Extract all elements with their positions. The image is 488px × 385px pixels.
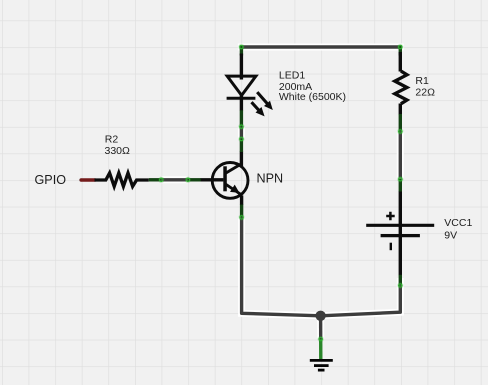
battery VCC1 (366, 212, 434, 250)
LED1 anode lead (black) (240, 54, 243, 80)
svg-text:R2: R2 (105, 134, 119, 146)
svg-text:R1: R1 (415, 75, 429, 87)
R2 pin 2 lead (green) (149, 178, 162, 181)
ground pin lead (green) (319, 339, 322, 360)
wire LED1 cathode to Q1 collector (240, 127, 243, 140)
wire R2 to Q1 base (161, 178, 188, 181)
Q1 emitter lead (black) (240, 195, 243, 205)
wire top rail: LED1 anode to R1 top (241, 45, 400, 48)
battery VCC1 minus pin lead (green) (399, 275, 402, 286)
svg-text:White (6500K): White (6500K) (279, 91, 346, 103)
transistor Q1 (NPN) (212, 163, 248, 199)
node GPIO wire end tip (79, 178, 82, 181)
LED1 cathode pin lead (green) (240, 110, 243, 126)
node Q1 emitter (239, 215, 244, 220)
wire R1 bottom to battery plus (399, 132, 402, 179)
transistor Q1 base lead (black) (201, 178, 224, 181)
node R1 top / top-right corner (398, 44, 403, 49)
resistor R2 (95, 173, 149, 186)
LED1 emission arrow lower (252, 102, 260, 110)
node VCC1 plus (398, 177, 403, 182)
node VCC1 minus (398, 283, 403, 288)
R1 pin 2 lead (green) (399, 114, 402, 131)
node Q1 base (185, 177, 190, 182)
LED LED1 (227, 76, 273, 116)
svg-text:330Ω: 330Ω (105, 145, 131, 157)
resistor R1 (395, 71, 407, 104)
wire junction to bottom-right corner up to battery minus (321, 286, 401, 316)
Q1 emitter pin lead (green) (240, 205, 243, 218)
VCC1 minus sign (rotated bar) (390, 243, 392, 251)
svg-text:GPIO: GPIO (35, 173, 67, 187)
Q1 collector pin lead (green) (240, 139, 243, 152)
node LED1 cathode (239, 124, 244, 129)
R1 pin 2 lead (black) (399, 104, 402, 115)
Q1 collector lead (black) (240, 152, 243, 167)
node R2 pin 2 (159, 177, 164, 182)
battery VCC1 plus pin lead (green) (399, 179, 402, 192)
wire Q1 emitter down to bottom-left corner then to junction (242, 217, 321, 315)
svg-text:9V: 9V (444, 229, 457, 241)
svg-text:LED1: LED1 (279, 70, 305, 82)
R1 pin 1 lead (black) (399, 52, 402, 72)
wire GPIO net (dark red) (81, 178, 94, 182)
node LED1 anode / top-left corner (239, 44, 244, 49)
LED1 anode pin lead (green) (240, 46, 243, 56)
node ground (318, 336, 323, 341)
transistor Q1 base pin lead (green) (188, 178, 201, 181)
battery VCC1 plus lead (black) (399, 192, 402, 226)
LED1 emission arrow upper (257, 92, 267, 104)
wire short segments casing (161, 127, 320, 339)
R1 pin 1 lead (green) (399, 46, 402, 56)
svg-text:NPN: NPN (257, 172, 284, 186)
junction bottom node (315, 311, 325, 321)
svg-text:22Ω: 22Ω (415, 86, 435, 98)
VCC1 plus sign (386, 212, 395, 220)
node R1 pin 2 (398, 129, 403, 134)
wire top rail casing (LED1 anode to R1 top) (241, 44, 400, 51)
battery VCC1 minus lead (black) (399, 236, 402, 276)
LED1 cathode lead (black) (240, 96, 243, 111)
wire bottom loop casing (emitter to junction to battery minus) (242, 132, 401, 316)
svg-text:VCC1: VCC1 (444, 217, 472, 229)
wire junction to ground (319, 316, 323, 339)
ground (310, 360, 333, 370)
node Q1 collector (239, 136, 244, 141)
